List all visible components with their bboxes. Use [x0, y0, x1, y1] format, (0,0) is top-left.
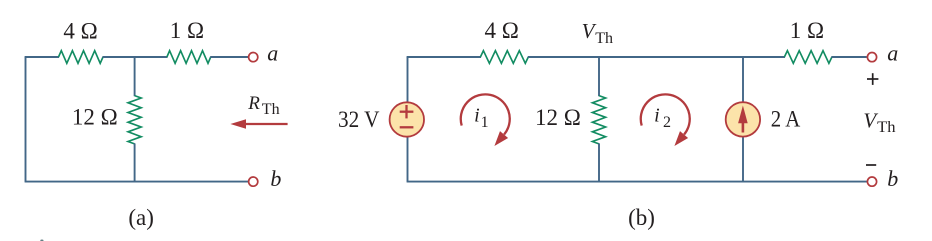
wire 2 A source branch (b): [742, 56, 744, 182]
mesh current arrow i2 arc: [641, 94, 690, 134]
svg-text:V: V: [863, 108, 878, 132]
R_Th direction arrow shaft (a): [244, 123, 288, 125]
svg-text:b: b: [270, 166, 281, 191]
svg-text:a: a: [887, 41, 898, 66]
current source arrow shaft: [742, 122, 745, 133]
wire top rail left segment (a): [25, 56, 59, 58]
svg-text:1 Ω: 1 Ω: [170, 18, 204, 43]
resistor 1 ohm (a): [167, 51, 211, 64]
mesh current arrow i1 head: [494, 131, 508, 146]
svg-text:Th: Th: [595, 30, 613, 47]
svg-text:1: 1: [481, 114, 489, 131]
svg-text:1 Ω: 1 Ω: [790, 18, 824, 43]
mesh current arrow i2 head: [674, 131, 688, 146]
svg-text:b: b: [887, 166, 898, 191]
current source 2 A circle: [726, 102, 760, 136]
current source arrow head: [738, 106, 748, 124]
svg-text:32 V: 32 V: [338, 107, 380, 132]
resistor 12 ohm (b): [592, 96, 605, 144]
stray ink speck (page artifact): [40, 240, 43, 241]
resistor 12 ohm (a): [128, 96, 141, 144]
minus polarity mark (b): [866, 164, 876, 166]
R_Th direction arrow head (a): [230, 119, 246, 129]
svg-text:a: a: [267, 41, 278, 66]
svg-text:(b): (b): [628, 205, 655, 230]
voltage source minus sign: [400, 126, 414, 128]
resistor 4 ohm (b): [480, 51, 528, 64]
wire bottom rail (a): [25, 181, 249, 183]
svg-text:4 Ω: 4 Ω: [485, 18, 519, 43]
terminal a (a): [249, 53, 258, 62]
wire 12-ohm branch lower segment (b): [598, 143, 600, 182]
terminal b (b): [867, 177, 876, 186]
voltage source 32 V circle: [390, 102, 424, 136]
wire 12-ohm branch upper segment (b): [598, 56, 600, 96]
svg-text:2: 2: [663, 114, 671, 131]
wire top rail middle segment (a): [103, 56, 168, 58]
terminal a (b): [867, 53, 876, 62]
wire top rail segment 2 (b): [528, 56, 785, 58]
svg-text:12 Ω: 12 Ω: [72, 105, 118, 130]
plus polarity mark (b): [867, 73, 878, 85]
wire top rail right segment to terminal a (a): [210, 56, 248, 58]
svg-text:Th: Th: [877, 119, 895, 136]
voltage source plus sign: [400, 105, 414, 118]
svg-text:(a): (a): [128, 205, 154, 230]
wire 12-ohm branch lower segment (a): [134, 143, 136, 182]
wire top rail segment 3 to terminal a (b): [831, 56, 866, 58]
svg-text:Th: Th: [262, 101, 280, 118]
wire left vertical with source branch (b): [407, 57, 409, 182]
resistor 4 ohm (a): [59, 51, 104, 64]
svg-text:12 Ω: 12 Ω: [535, 105, 581, 130]
wire 12-ohm branch upper segment (a): [134, 56, 136, 96]
svg-text:i: i: [474, 105, 480, 127]
svg-text:i: i: [654, 105, 660, 127]
wire bottom rail (b): [407, 181, 868, 183]
wire top rail segment 1 (b): [407, 56, 481, 58]
resistor 1 ohm (b): [784, 51, 832, 64]
svg-text:4 Ω: 4 Ω: [63, 18, 97, 43]
wire left vertical (a): [25, 57, 27, 182]
svg-text:R: R: [247, 93, 260, 114]
svg-text:2 A: 2 A: [771, 106, 801, 131]
mesh current arrow i1 arc: [461, 94, 510, 134]
terminal b (a): [249, 177, 258, 186]
